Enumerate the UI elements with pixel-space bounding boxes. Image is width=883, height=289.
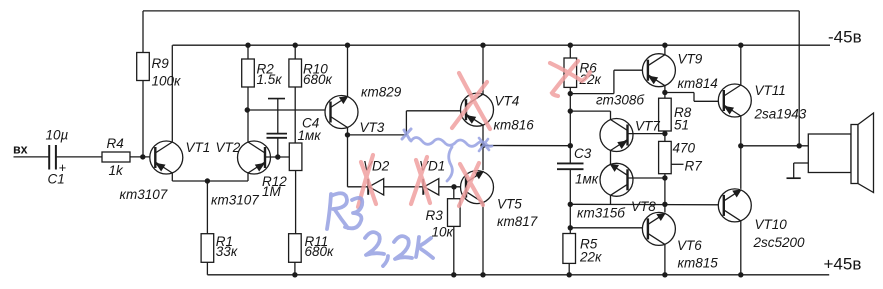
svg-text:VT9: VT9 [678, 52, 703, 67]
svg-text:R3: R3 [426, 208, 444, 223]
svg-text:кт3107: кт3107 [120, 187, 168, 202]
svg-text:680к: 680к [305, 244, 335, 259]
svg-text:100к: 100к [152, 74, 182, 89]
svg-text:кт816: кт816 [494, 118, 535, 133]
svg-text:VT8: VT8 [631, 199, 656, 214]
svg-text:кт829: кт829 [361, 85, 402, 100]
svg-text:VT3: VT3 [360, 120, 385, 135]
svg-text:680к: 680к [303, 72, 333, 87]
svg-text:1k: 1k [109, 163, 125, 178]
svg-text:2sa1943: 2sa1943 [754, 107, 807, 122]
svg-text:1мк: 1мк [298, 128, 322, 143]
svg-text:1мк: 1мк [575, 172, 599, 187]
svg-text:C3: C3 [574, 146, 592, 161]
svg-text:22к: 22к [579, 250, 602, 265]
svg-text:VT7: VT7 [635, 119, 660, 134]
svg-text:гт308б: гт308б [596, 93, 644, 108]
svg-text:VT1: VT1 [186, 140, 211, 155]
svg-text:10µ: 10µ [46, 128, 69, 143]
svg-text:кт3107: кт3107 [211, 193, 259, 208]
svg-text:кт315б: кт315б [577, 206, 625, 221]
svg-text:кт815: кт815 [678, 256, 719, 271]
svg-text:вх: вх [13, 143, 28, 157]
svg-text:10к: 10к [432, 225, 454, 240]
svg-text:VT11: VT11 [755, 83, 786, 98]
svg-text:VT2: VT2 [216, 140, 241, 155]
svg-text:R4: R4 [107, 136, 124, 151]
svg-text:VT5: VT5 [497, 197, 522, 212]
svg-text:51: 51 [674, 118, 689, 133]
svg-text:33к: 33к [216, 244, 238, 259]
svg-text:1.5к: 1.5к [257, 72, 283, 87]
svg-text:R7: R7 [685, 159, 703, 174]
svg-text:VT10: VT10 [755, 217, 788, 232]
svg-text:VT6: VT6 [677, 238, 702, 253]
svg-text:кт814: кт814 [678, 76, 718, 91]
svg-text:VT4: VT4 [495, 94, 520, 109]
svg-text:2sc5200: 2sc5200 [753, 235, 806, 250]
svg-text:-45в: -45в [828, 28, 862, 47]
svg-text:C1: C1 [48, 172, 65, 187]
svg-text:470: 470 [673, 141, 696, 156]
svg-text:R9: R9 [152, 56, 170, 71]
svg-text:кт817: кт817 [497, 214, 538, 229]
svg-text:+45в: +45в [824, 255, 862, 274]
svg-text:1M: 1M [262, 184, 282, 199]
